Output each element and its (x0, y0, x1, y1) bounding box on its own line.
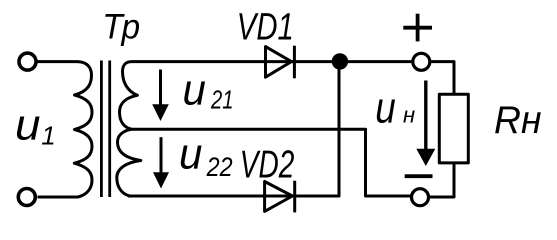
arrow for uH (load voltage) (416, 81, 435, 167)
svg-text:н: н (403, 102, 415, 127)
wire: minus terminal to load resistor bottom (429, 163, 454, 197)
diode VD1 triangle (266, 47, 292, 78)
svg-text:VD2: VD2 (240, 144, 295, 187)
svg-text:21: 21 (210, 85, 233, 115)
svg-text:Rн: Rн (494, 99, 542, 142)
minus polarity sign (405, 174, 433, 178)
svg-text:u: u (179, 130, 202, 179)
svg-text:VD1: VD1 (237, 6, 294, 48)
diode VD2 cathode bar (293, 181, 296, 213)
arrow for u22 (153, 137, 169, 188)
terminal circle bottom-left (18, 189, 35, 206)
svg-text:22: 22 (206, 152, 233, 182)
secondary winding w21 + top rail wire to + terminal (120, 62, 412, 130)
svg-text:u: u (15, 101, 41, 150)
transformer primary winding (38, 62, 93, 197)
output terminal circle plus (413, 53, 430, 70)
diode VD1 cathode bar (293, 46, 296, 79)
junction node dot (332, 53, 348, 69)
arrow for u21 (152, 70, 169, 122)
wire: top-left terminal to primary winding (37, 60, 77, 63)
svg-text:1: 1 (41, 121, 55, 151)
svg-text:Тр: Тр (102, 8, 140, 47)
svg-text:u: u (183, 65, 206, 114)
bottom rail: winding w22 to VD2 to vertical riser, riser up to junction (128, 62, 339, 196)
output terminal circle minus (412, 189, 429, 206)
center-tap wire to minus terminal (130, 129, 411, 196)
wire: plus terminal to load resistor top (430, 62, 454, 95)
load resistor RH body (439, 94, 468, 163)
terminal circle top-left (19, 53, 36, 70)
plus polarity sign (403, 14, 432, 42)
secondary winding w22 (117, 129, 141, 196)
transformer core line 2 (108, 61, 111, 198)
svg-text:u: u (375, 83, 396, 132)
diode VD2 triangle (265, 182, 293, 212)
transformer core line 1 (100, 61, 103, 198)
